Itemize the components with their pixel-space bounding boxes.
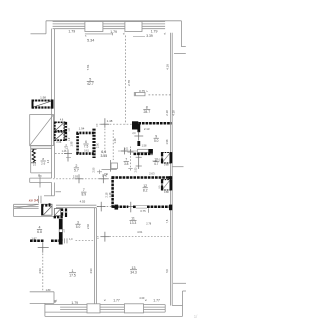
svg-text:4.55: 4.55 (80, 200, 86, 204)
stair shaft rectangle (30, 115, 54, 146)
svg-text:8: 8 (146, 106, 148, 110)
svg-text:7.5: 7.5 (84, 145, 89, 149)
room 12 top wall right corner block (169, 176, 173, 179)
balcony diagonal (33, 101, 54, 108)
svg-text:13: 13 (132, 266, 136, 270)
hall bottom wall double (56, 204, 96, 206)
window W6 glazing (144, 306, 166, 308)
dashed vertical x113.2 (112, 130, 114, 160)
dim line 5.34 (85, 33, 113, 35)
wire: top-right stub a (181, 46, 185, 48)
balcony top crenellated edge (32, 100, 54, 102)
dim cross at 105/124 (104, 118, 106, 128)
svg-text:2.6: 2.6 (41, 162, 45, 166)
svg-text:1.79: 1.79 (68, 29, 75, 33)
svg-text:3.8: 3.8 (124, 162, 129, 166)
svg-text:3: 3 (77, 220, 79, 224)
room 9 door cross (138, 132, 140, 141)
svg-text:Пс: Пс (105, 172, 109, 176)
svg-text:1.79: 1.79 (110, 30, 117, 34)
vent shaft B black bar (64, 132, 67, 141)
svg-text:2.13: 2.13 (144, 127, 150, 131)
svg-text:1: 1 (72, 269, 74, 273)
vent unit crenellated bottom (54, 216, 64, 218)
balcony end block right (51, 100, 54, 109)
svg-text:1.79: 1.79 (71, 301, 78, 305)
wire: bottom outer edge line (45, 315, 183, 317)
svg-text:4: 4 (39, 226, 41, 230)
svg-text:13.3: 13.3 (130, 221, 137, 225)
svg-text:3.55: 3.55 (100, 154, 107, 158)
bay shaft vertical pair (38, 196, 40, 203)
svg-text:2.50: 2.50 (92, 167, 95, 172)
room 6 crenellated bottom wall (76, 152, 95, 155)
dashed wall y240.7 (76, 240, 95, 242)
svg-text:7,6: 7,6 (165, 219, 169, 223)
svg-text:8.9: 8.9 (81, 193, 86, 197)
svg-text:4.50: 4.50 (38, 268, 42, 274)
dashed partition y236.7 (109, 236, 170, 238)
door leaf room 9 (138, 149, 149, 152)
dashed partition vertical x125 (124, 36, 126, 125)
svg-text:2.06: 2.06 (56, 141, 61, 144)
svg-text:1.79: 1.79 (151, 29, 158, 33)
bottom pier box 1 (87, 304, 100, 313)
vent black bar a (61, 208, 63, 216)
bay shaft box crenellated top (42, 204, 51, 206)
svg-text:5.0: 5.0 (154, 139, 159, 143)
vent shaft B crenellated box (55, 132, 65, 140)
room 4 door cross (42, 242, 44, 253)
svg-text:7.81: 7.81 (86, 64, 90, 70)
window W2 top wall (1.79) (103, 21, 125, 23)
svg-text:5.0: 5.0 (76, 225, 81, 229)
wire: bottom-right step (172, 305, 182, 307)
svg-text:1.77: 1.77 (153, 299, 160, 303)
wall pier box top 1 (85, 22, 103, 32)
svg-text:2.78: 2.78 (127, 80, 131, 86)
wire: top-right outer corner vertical (180, 21, 182, 47)
dim cross a y178.8 (75, 178, 84, 180)
wire: top-left wall stub (31, 33, 47, 35)
vent black bar b (65, 208, 67, 217)
window W1 top wall (1.79) (53, 21, 85, 23)
bottom band bottom line (45, 311, 165, 313)
svg-text:6.8: 6.8 (37, 230, 42, 234)
door leaf room 8 (136, 92, 146, 95)
svg-text:4.18: 4.18 (172, 110, 176, 116)
room 9 left wall black lower (137, 141, 140, 146)
room 9 left wall black upper (137, 124, 140, 132)
vent box C crenellated left (161, 152, 163, 156)
dim cross y151 (121, 150, 128, 152)
room 11 top wall right corner block (169, 205, 172, 211)
wire: bottom-left step lower (30, 302, 54, 304)
svg-text:2: 2 (75, 164, 77, 168)
svg-text:2.18: 2.18 (105, 192, 108, 197)
dim cross y206.4 b (126, 205, 135, 207)
svg-text:5,6: 5,6 (165, 269, 169, 273)
wire: right lower stub a (173, 282, 186, 284)
wire: left wall line a (51, 29, 53, 179)
hatched shaft box (54, 209, 61, 216)
room 6 crenellated top wall (76, 132, 94, 135)
short line y157.6 (66, 157, 71, 159)
door leaf room 7 (111, 163, 118, 169)
stair room bottom wall (31, 172, 52, 174)
svg-text:5.34: 5.34 (87, 38, 94, 42)
dashed wall y206.4 (97, 205, 115, 207)
svg-text:5.7: 5.7 (74, 169, 79, 173)
svg-text:1.98: 1.98 (166, 139, 169, 144)
tick on dashed x130.5 (128, 168, 132, 170)
svg-text:6: 6 (85, 140, 87, 144)
dashed wall right of door (149, 94, 171, 96)
room 3/4 divider black wall (59, 219, 63, 241)
door jamb tick room 8 (133, 92, 135, 96)
wire: left wall line b (53, 29, 55, 179)
wire: right mid stub (172, 166, 183, 168)
wire: bottom-left step upper (30, 291, 54, 293)
stair flight zigzag (32, 150, 35, 163)
dashed vertical x42.8 (42, 254, 44, 292)
bay shaft box black top-right (49, 203, 51, 206)
thin line y151 (118, 150, 137, 152)
svg-text:11: 11 (131, 216, 135, 220)
room 11 door gap lines (136, 205, 147, 207)
landing tick (39, 177, 41, 184)
svg-text:2.63: 2.63 (149, 172, 155, 176)
svg-text:2.03: 2.03 (135, 167, 138, 172)
bay window lines (14, 203, 39, 205)
svg-text:9: 9 (155, 134, 157, 138)
svg-text:1.98: 1.98 (40, 95, 46, 99)
svg-text:34.3: 34.3 (130, 270, 137, 274)
svg-text:0.88: 0.88 (164, 191, 169, 194)
balcony bottom crenellated edge (32, 106, 54, 108)
dashed partition horizontal y124 (96, 123, 137, 125)
svg-text:1.46: 1.46 (62, 150, 67, 153)
short mark left (56, 191, 62, 193)
room 8 bottom wall corner block (132, 121, 138, 129)
svg-text:2.92: 2.92 (86, 223, 90, 229)
dim line 3.39 tick (133, 36, 145, 38)
svg-text:4.18: 4.18 (166, 64, 170, 70)
svg-text:7: 7 (83, 188, 85, 192)
svg-text:2.50: 2.50 (96, 142, 99, 147)
center wall double line (94, 208, 96, 305)
svg-text:1,40: 1,40 (152, 160, 157, 163)
vent box D (162, 180, 170, 190)
landing band (30, 177, 52, 179)
bay shaft box black left (41, 204, 43, 215)
svg-text:1.77: 1.77 (113, 299, 120, 303)
wire: right lower stub b (183, 290, 187, 292)
bay bottom line (14, 216, 59, 218)
wire: top-right stub b (174, 52, 186, 54)
room 6 crenellated left wall (76, 133, 79, 154)
wire: top-left corner vertical (45, 21, 47, 34)
room 11 top crenellated wall (112, 206, 128, 209)
svg-text:28.7: 28.7 (143, 110, 150, 114)
svg-text:8.2: 8.2 (143, 188, 148, 192)
stair room left wall (30, 146, 32, 173)
room 9 bottom wall corner black (149, 149, 153, 154)
svg-text:кв 94: кв 94 (29, 197, 39, 202)
svg-text:2.93: 2.93 (73, 174, 79, 178)
bottom band right cap (164, 305, 166, 313)
dashed line y178.8 (53, 178, 112, 180)
svg-text:1.18: 1.18 (113, 138, 117, 144)
dim cross b y178.8 (99, 178, 108, 180)
bottom band top line (45, 304, 165, 306)
dashed vertical x104.9 below cross (104, 129, 106, 153)
wall pier box top 2 (125, 22, 142, 32)
svg-text:12: 12 (143, 184, 147, 188)
wire: right wall inner line (170, 33, 172, 306)
room 1 corner black block (59, 239, 63, 244)
svg-text:1.58: 1.58 (142, 144, 147, 147)
wire: right lower outer vertical (182, 291, 184, 316)
svg-text:0.75: 0.75 (140, 209, 146, 213)
svg-text:1.01: 1.01 (124, 148, 129, 151)
window W5 glazing (100, 306, 124, 308)
svg-text:2.18: 2.18 (165, 110, 169, 116)
window W3 top wall (1.79) (142, 21, 165, 23)
room 1 door ticks (64, 238, 66, 243)
svg-text:1.89: 1.89 (46, 289, 51, 292)
window W4 glazing (60, 306, 87, 308)
wire: top outer wall (46, 20, 181, 22)
svg-text:42.7: 42.7 (87, 82, 94, 86)
vent box C (162, 153, 170, 163)
stair room top wall (30, 145, 52, 147)
vent shaft A crenellated box (55, 122, 65, 131)
bay left cap (13, 204, 15, 216)
svg-text:1.48: 1.48 (107, 119, 113, 123)
vent box D crenellated left (161, 179, 163, 183)
door post room 7 (110, 160, 112, 172)
door tick room 7 (99, 170, 101, 174)
vent box D wall black (170, 179, 173, 190)
svg-text:4.90: 4.90 (89, 268, 93, 274)
room 9 bottom crenellated wall (134, 153, 153, 156)
room 4 bottom crenellated wall (30, 239, 44, 242)
svg-text:4.61: 4.61 (137, 230, 143, 234)
svg-text:1.18: 1.18 (109, 192, 112, 197)
bottom pier box 2 (124, 304, 143, 313)
door sill room 7 (102, 169, 117, 171)
dim cross at 68/153.6 (67, 150, 69, 162)
dim cross x130.5 (128, 151, 134, 153)
vent box C wall black (170, 152, 173, 163)
svg-text:1.94: 1.94 (79, 127, 85, 131)
dim column (138, 154, 140, 170)
svg-text:0.61: 0.61 (84, 150, 89, 153)
stair exit tick (44, 195, 54, 197)
dashed vertical x130.5 (130, 147, 132, 173)
room 8 bottom crenellated wall (138, 122, 171, 125)
svg-text:7: 7 (125, 158, 127, 162)
bay window diagonal (14, 204, 39, 208)
room 11 top wall corner block (115, 205, 119, 210)
room 12 top crenellated wall (112, 176, 172, 179)
room 12 left crenellated wall (111, 176, 114, 208)
stair shaft diagonal (30, 115, 54, 146)
svg-text:5: 5 (89, 78, 91, 82)
svg-text:1.98: 1.98 (71, 141, 74, 146)
svg-text:2.78: 2.78 (146, 222, 151, 225)
dim cross y206.4 a (97, 205, 106, 207)
balcony end block left (32, 100, 34, 109)
door tick room 11 (148, 208, 150, 213)
vent shaft A black bar (64, 122, 67, 131)
svg-text:0.88: 0.88 (164, 164, 169, 167)
svg-text:17.5: 17.5 (69, 273, 76, 277)
wire: right wall outer line (171, 33, 173, 306)
room 6 crenellated right wall (92, 129, 95, 158)
svg-text:3.39: 3.39 (146, 34, 153, 38)
dashed line y153.6 (55, 153, 68, 155)
bay shaft box (42, 204, 53, 215)
dim cross y236.7 (104, 232, 106, 242)
